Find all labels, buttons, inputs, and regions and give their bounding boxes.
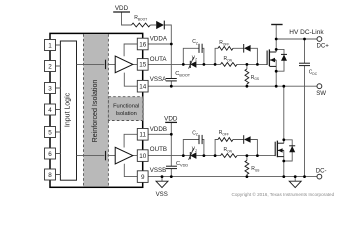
svg-text:VDDA: VDDA bbox=[150, 35, 168, 42]
svg-text:9: 9 bbox=[141, 174, 145, 181]
svg-text:OUTB: OUTB bbox=[150, 146, 167, 153]
svg-text:5: 5 bbox=[48, 129, 52, 136]
svg-text:8: 8 bbox=[48, 172, 52, 179]
svg-text:14: 14 bbox=[139, 84, 147, 91]
svg-text:VDD: VDD bbox=[164, 115, 178, 122]
svg-text:15: 15 bbox=[139, 62, 147, 69]
svg-text:Copyright © 2016, Texas Instru: Copyright © 2016, Texas Instruments Inco… bbox=[232, 191, 335, 197]
svg-text:VSSA: VSSA bbox=[150, 76, 167, 83]
svg-text:OUTA: OUTA bbox=[150, 56, 168, 63]
svg-text:DC-: DC- bbox=[316, 167, 327, 174]
svg-text:1: 1 bbox=[48, 42, 52, 49]
svg-text:SW: SW bbox=[316, 90, 326, 97]
svg-text:DC+: DC+ bbox=[317, 43, 330, 50]
svg-text:10: 10 bbox=[139, 153, 147, 160]
svg-text:Isolation: Isolation bbox=[116, 111, 137, 117]
svg-text:VSSB: VSSB bbox=[150, 167, 167, 174]
svg-text:2: 2 bbox=[48, 63, 52, 70]
svg-text:VSS: VSS bbox=[156, 191, 168, 198]
svg-text:3: 3 bbox=[48, 85, 52, 92]
svg-text:VDDB: VDDB bbox=[150, 126, 167, 133]
svg-text:4: 4 bbox=[48, 107, 52, 114]
svg-text:16: 16 bbox=[139, 41, 147, 48]
svg-text:Input Logic: Input Logic bbox=[65, 92, 72, 127]
svg-text:HV DC-Link: HV DC-Link bbox=[289, 29, 324, 36]
svg-text:VDD: VDD bbox=[115, 5, 129, 12]
svg-text:11: 11 bbox=[139, 132, 146, 139]
svg-text:6: 6 bbox=[48, 151, 52, 158]
svg-text:Functional: Functional bbox=[113, 104, 139, 110]
svg-text:Reinforced Isolation: Reinforced Isolation bbox=[91, 80, 99, 143]
